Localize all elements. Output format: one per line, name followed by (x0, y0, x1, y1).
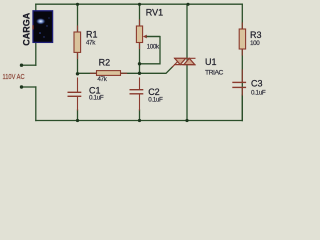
svg-text:R1: R1 (86, 29, 98, 39)
svg-text:C3: C3 (251, 79, 263, 89)
svg-text:100k: 100k (147, 44, 160, 51)
svg-text:R3: R3 (250, 30, 262, 40)
svg-text:47k: 47k (86, 40, 96, 47)
svg-text:0.1uF: 0.1uF (89, 95, 104, 102)
svg-text:100: 100 (250, 40, 260, 47)
svg-text:U1: U1 (205, 57, 217, 67)
svg-text:C2: C2 (148, 87, 160, 97)
svg-text:47k: 47k (97, 76, 107, 83)
svg-text:0.1uF: 0.1uF (251, 90, 266, 97)
svg-text:RV1: RV1 (146, 7, 163, 17)
svg-text:110V AC: 110V AC (3, 73, 25, 81)
svg-text:0.1uF: 0.1uF (148, 96, 163, 103)
svg-text:TRIAC: TRIAC (205, 70, 223, 77)
svg-text:CARGA: CARGA (21, 12, 31, 45)
svg-text:R2: R2 (99, 57, 111, 67)
